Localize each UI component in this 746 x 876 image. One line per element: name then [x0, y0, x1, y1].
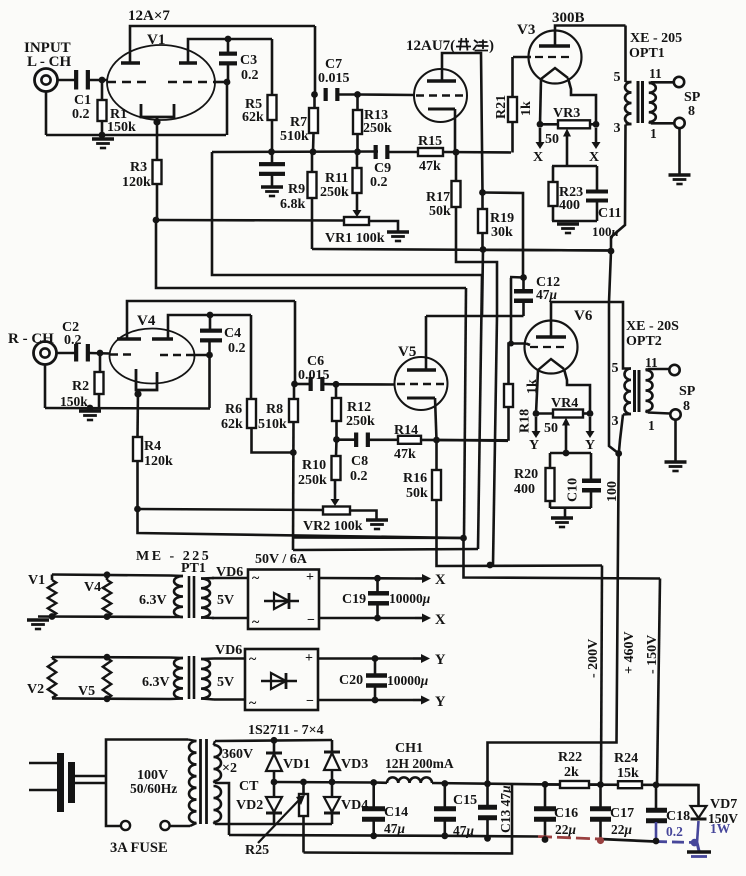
- node M: [453, 149, 460, 156]
- svg-text:120k: 120k: [144, 454, 173, 469]
- wire: [215, 823, 332, 826]
- svg-text:V3: V3: [517, 22, 535, 38]
- svg-text:0.2: 0.2: [350, 469, 368, 484]
- resistor R6: [221, 315, 293, 453]
- svg-text:CT: CT: [239, 779, 259, 794]
- svg-text:10000μ: 10000μ: [389, 591, 431, 606]
- node A: [99, 77, 106, 84]
- svg-text:X: X: [589, 150, 599, 165]
- transformer OPT2 core: [635, 370, 640, 412]
- node N: [480, 246, 487, 253]
- resistor R7: [280, 95, 318, 153]
- pin 3: [612, 414, 619, 429]
- node S2: [271, 737, 278, 744]
- svg-text:C16: C16: [554, 806, 578, 821]
- capacitor C14: [362, 783, 408, 837]
- label C7: [318, 57, 350, 86]
- wire: [57, 352, 77, 355]
- label 50V/6A: [255, 552, 308, 567]
- wire: [350, 511, 377, 520]
- svg-text:Y: Y: [435, 694, 446, 710]
- label 6.3V-2: [142, 675, 170, 690]
- svg-text:R10: R10: [302, 458, 326, 473]
- node P2: [104, 695, 111, 702]
- wire: [568, 78, 596, 124]
- transformer T2 secondary winding: [214, 741, 222, 824]
- wire: [649, 122, 674, 123]
- tube V1 grid dashes: [107, 81, 216, 83]
- label +460V: [622, 631, 637, 674]
- label -150V: [645, 635, 660, 674]
- wire: [52, 575, 170, 576]
- svg-text:C6: C6: [307, 354, 324, 369]
- svg-text:C19: C19: [342, 592, 366, 607]
- svg-text:47k: 47k: [419, 159, 441, 174]
- svg-text:0.2: 0.2: [370, 175, 388, 190]
- wire: [44, 365, 47, 409]
- svg-text:Y: Y: [585, 438, 595, 453]
- wire: [551, 302, 631, 369]
- node X1: [134, 390, 141, 397]
- transformer OPT2 primary: [623, 369, 631, 415]
- wire: [212, 150, 378, 153]
- wire gnd bus: [229, 835, 538, 837]
- arrow X ps bot: [415, 612, 446, 628]
- svg-text:12AU7(: 12AU7(: [406, 38, 455, 54]
- rectifier VD6-1 box: [248, 570, 319, 631]
- wire: [52, 657, 245, 659]
- arrow Y ps top: [413, 652, 446, 668]
- label V1: [28, 573, 45, 588]
- node U2: [441, 780, 659, 788]
- tube V5 plate: [407, 368, 436, 371]
- wire: [212, 577, 248, 580]
- svg-text:C3: C3: [240, 53, 257, 68]
- arrow Y left: [529, 417, 541, 453]
- svg-text:0.2: 0.2: [241, 68, 259, 83]
- resistor R12: [332, 384, 375, 439]
- svg-text:R16: R16: [403, 471, 427, 486]
- resistor R5: [242, 39, 277, 152]
- diode VD7: [656, 785, 738, 843]
- resistor R15: [418, 134, 443, 174]
- wire: [52, 657, 107, 658]
- svg-text:R11: R11: [325, 171, 348, 186]
- svg-text:SP: SP: [684, 90, 701, 105]
- capacitor C19: [368, 578, 389, 618]
- tube V4 envelope: [110, 313, 195, 384]
- wire: [674, 420, 677, 461]
- wire: [456, 207, 497, 316]
- tube V2 plate: [427, 79, 456, 82]
- label C20: [339, 673, 429, 688]
- svg-text:120k: 120k: [122, 175, 151, 190]
- svg-text:R17: R17: [426, 190, 450, 205]
- node Q2: [372, 655, 379, 662]
- resistor R2: [60, 356, 104, 409]
- label C19: [342, 591, 431, 607]
- svg-text:- 200V: - 200V: [586, 639, 601, 678]
- heater V2: [48, 658, 56, 698]
- ground: [551, 508, 573, 527]
- label 6.3V: [139, 593, 167, 608]
- tube V3 filament: [541, 68, 568, 79]
- arrow X ps top: [415, 572, 446, 588]
- wire: [52, 575, 107, 581]
- resistor R25: [299, 782, 308, 853]
- node D2: [433, 437, 440, 444]
- wire: [75, 776, 106, 783]
- svg-text:VD1: VD1: [283, 757, 310, 772]
- wire: [89, 352, 110, 355]
- svg-text:C17: C17: [610, 806, 634, 821]
- ground VR2: [366, 520, 388, 529]
- wire: [212, 617, 248, 620]
- label CH1: [385, 741, 454, 772]
- wire: [52, 698, 245, 699]
- node E: [225, 36, 232, 43]
- svg-text:510k: 510k: [258, 417, 287, 432]
- wire rail -150V upper: [464, 288, 466, 538]
- wire: [130, 26, 315, 63]
- capacitor C20: [366, 659, 387, 701]
- transformer OPT2 label: [626, 319, 679, 349]
- label SP 8: [679, 384, 696, 414]
- arrow Y right: [585, 417, 595, 453]
- arrow Y ps bot: [413, 694, 446, 710]
- wire: [649, 81, 674, 84]
- wire: [89, 79, 107, 82]
- svg-text:6.8k: 6.8k: [280, 197, 306, 212]
- svg-text:VR1 100k: VR1 100k: [325, 231, 385, 246]
- node C: [214, 79, 230, 86]
- wire: [156, 220, 466, 288]
- wire rail R17 route: [493, 316, 497, 565]
- wire: [552, 165, 597, 168]
- svg-text:~: ~: [249, 652, 257, 667]
- svg-text:R6: R6: [225, 402, 242, 417]
- capacitor C2: [62, 320, 90, 362]
- wire rail mid: [478, 275, 482, 549]
- wire: [215, 740, 332, 741]
- wire: [136, 390, 139, 437]
- svg-text:10000μ: 10000μ: [387, 673, 429, 688]
- wire grid V3: [513, 56, 531, 59]
- svg-text:XE - 20S: XE - 20S: [626, 319, 679, 334]
- label VD6-2: [215, 643, 242, 658]
- choke CH1: [387, 777, 432, 783]
- rectifier VD6-2 box: [245, 649, 318, 711]
- resistor R9: [280, 152, 317, 249]
- capacitor C5: [259, 152, 285, 186]
- wire: [646, 411, 671, 414]
- tube V4 right plate: [152, 315, 251, 339]
- tube V6 envelope: [525, 308, 593, 374]
- label 12AU7: [406, 38, 494, 54]
- svg-text:47μ: 47μ: [536, 287, 558, 302]
- svg-text:X: X: [435, 612, 446, 628]
- tube V1 right plate: [179, 39, 272, 63]
- resistor R21: [494, 57, 534, 153]
- tube V2 12AU7 envelope: [414, 69, 467, 122]
- tube V1 left plate: [121, 61, 140, 65]
- node M2: [374, 575, 381, 582]
- node S: [487, 562, 494, 569]
- svg-text:): ): [489, 38, 494, 54]
- rectifier VD6-2 diode: [261, 673, 297, 689]
- capacitor C11: [586, 166, 621, 239]
- wire: [212, 152, 482, 275]
- svg-text:400: 400: [514, 482, 535, 497]
- tube V5 envelope: [395, 344, 448, 410]
- svg-text:R24: R24: [614, 751, 638, 766]
- node P: [537, 121, 544, 128]
- capacitor C12: [510, 274, 560, 316]
- label ME-225: [136, 549, 211, 564]
- svg-text:C11: C11: [598, 206, 621, 221]
- svg-text:0.2: 0.2: [228, 341, 246, 356]
- svg-text:62k: 62k: [221, 417, 243, 432]
- svg-text:1W: 1W: [710, 821, 731, 836]
- wire: [386, 151, 418, 154]
- ground VR1: [387, 232, 409, 241]
- heater V4: [103, 580, 111, 617]
- resistor R17: [426, 152, 461, 219]
- resistor R24: [614, 751, 642, 788]
- svg-text:×2: ×2: [222, 761, 237, 776]
- label SP 8: [684, 90, 701, 119]
- wire B+ bus: [374, 783, 698, 786]
- label VD6: [216, 565, 243, 580]
- svg-text:250k: 250k: [320, 185, 349, 200]
- wire bus y537: [293, 536, 464, 539]
- svg-text:50: 50: [545, 132, 559, 147]
- svg-text:Y: Y: [529, 438, 539, 453]
- svg-text:3: 3: [612, 414, 619, 429]
- wire: [550, 452, 591, 455]
- svg-text:47μ: 47μ: [453, 823, 475, 838]
- resistor R18: [504, 344, 540, 441]
- svg-text:−: −: [306, 694, 314, 709]
- ground: [669, 175, 691, 184]
- capacitor C6: [309, 377, 325, 391]
- svg-text:0.2: 0.2: [666, 824, 683, 839]
- svg-text:XE - 205: XE - 205: [630, 31, 682, 46]
- svg-text:360V: 360V: [222, 747, 253, 762]
- wire: [536, 370, 538, 414]
- terminal SP2-: [670, 409, 680, 419]
- wire: [226, 82, 229, 135]
- svg-text:50k: 50k: [429, 204, 451, 219]
- wire: [156, 117, 159, 160]
- tube V1 envelope: [107, 32, 215, 120]
- node INPUT L-CH label: [24, 40, 72, 70]
- svg-text:C1: C1: [74, 93, 91, 108]
- ground: [27, 620, 49, 629]
- svg-text:C15: C15: [453, 793, 477, 808]
- tube V1 cathode: [141, 104, 174, 117]
- resistor R23: [549, 166, 584, 221]
- label 1S2711: [248, 723, 324, 738]
- wire R11 arrow: [353, 193, 362, 217]
- wire grid V6: [526, 344, 530, 346]
- capacitor C7: [324, 88, 340, 101]
- resistor R22: [545, 750, 601, 788]
- resistor R20: [514, 453, 555, 508]
- wire: [336, 383, 395, 386]
- wire gnd bus right: [538, 837, 697, 843]
- label 3A FUSE: [110, 840, 168, 856]
- svg-text:15k: 15k: [617, 766, 639, 781]
- svg-text:V6: V6: [574, 308, 593, 324]
- resistor R16: [403, 440, 602, 566]
- svg-text:8: 8: [683, 399, 690, 414]
- node T: [97, 350, 104, 357]
- svg-text:C18: C18: [666, 809, 690, 824]
- potentiometer VR1: [325, 217, 385, 246]
- label V4: [84, 580, 101, 595]
- tube V4 left plate: [117, 301, 295, 339]
- pin 11: [649, 66, 662, 81]
- svg-text:R4: R4: [144, 439, 161, 454]
- svg-text:−: −: [307, 613, 315, 628]
- svg-text:30k: 30k: [491, 225, 513, 240]
- tube V3 envelope: [517, 22, 582, 84]
- capacitor C17: [590, 785, 634, 841]
- node Z1: [291, 381, 298, 388]
- svg-text:5: 5: [614, 70, 621, 85]
- node B2: [290, 449, 297, 456]
- svg-text:47k: 47k: [394, 447, 416, 462]
- node R: [608, 248, 615, 255]
- svg-text:12A×7: 12A×7: [128, 8, 170, 24]
- svg-text:250k: 250k: [363, 121, 392, 136]
- svg-text:C4: C4: [224, 326, 241, 341]
- ground: [261, 187, 283, 196]
- svg-text:R7: R7: [290, 115, 307, 130]
- resistor R4: [133, 437, 173, 509]
- wire CT: [215, 783, 229, 835]
- svg-text:X: X: [533, 150, 543, 165]
- node B: [99, 132, 106, 139]
- node V: [207, 312, 214, 319]
- wire: [552, 220, 597, 223]
- label V5h: [78, 684, 95, 699]
- svg-text:C8: C8: [351, 454, 368, 469]
- node J2d: [615, 450, 622, 457]
- svg-text:V5: V5: [398, 344, 416, 360]
- diode VD3: [324, 740, 368, 782]
- svg-text:2k: 2k: [564, 765, 579, 780]
- svg-text:C20: C20: [339, 673, 363, 688]
- ground: [92, 139, 114, 148]
- svg-text:250k: 250k: [298, 473, 327, 488]
- transformer OPT1 core: [638, 81, 643, 123]
- svg-text:R18: R18: [518, 409, 533, 433]
- wire bus rect out: [274, 781, 374, 784]
- wire: [366, 438, 398, 441]
- tube V6 filament: [538, 359, 564, 370]
- wire plate to node O: [442, 53, 483, 193]
- resistor R14: [394, 423, 421, 462]
- svg-text:C10: C10: [566, 478, 581, 502]
- svg-text:OPT1: OPT1: [629, 46, 665, 61]
- pin 1: [650, 126, 657, 141]
- ground: [79, 411, 101, 420]
- wire pin3 OPT2: [619, 415, 623, 454]
- label 100V: [130, 768, 177, 796]
- svg-text:6.3V: 6.3V: [142, 675, 170, 690]
- wire: [337, 438, 358, 441]
- svg-text:6.3V: 6.3V: [139, 593, 167, 608]
- resistor R13: [353, 95, 392, 153]
- transformer PT1 winding 6.3V-2: [170, 658, 183, 700]
- svg-text:V1: V1: [147, 32, 165, 48]
- wire: [45, 407, 210, 410]
- wire -200 rail: [601, 566, 602, 785]
- transformer OPT1 primary: [625, 26, 632, 125]
- wire: [646, 369, 670, 370]
- wire: [564, 369, 590, 414]
- wire: [550, 506, 591, 509]
- node R-CH label: [8, 331, 54, 347]
- svg-text:62k: 62k: [242, 110, 264, 125]
- capacitor C3: [219, 39, 259, 83]
- arrow X left: [533, 128, 545, 165]
- wire: [318, 657, 413, 660]
- svg-text:0.2: 0.2: [64, 333, 82, 348]
- diode VD1: [266, 740, 310, 782]
- node Q: [593, 121, 600, 128]
- svg-text:0.015: 0.015: [318, 71, 350, 86]
- heater V1: [48, 580, 56, 616]
- svg-text:V2: V2: [27, 682, 44, 697]
- resistor R11: [320, 152, 362, 200]
- label -200V: [586, 639, 601, 678]
- svg-text:+ 460V: + 460V: [622, 631, 637, 674]
- wire y250 right segment: [483, 249, 611, 252]
- svg-text:50k: 50k: [406, 486, 428, 501]
- svg-text:VD6: VD6: [215, 643, 242, 658]
- rectifier VD6-1 diode: [264, 593, 299, 609]
- wire: [294, 301, 297, 384]
- wire: [369, 221, 398, 231]
- potentiometer VR3: [540, 106, 596, 128]
- svg-text:+: +: [306, 570, 314, 585]
- wire y852: [304, 785, 513, 854]
- wire: [58, 79, 77, 82]
- svg-text:R25: R25: [245, 843, 269, 858]
- label 100: [605, 481, 620, 502]
- transformer T2 core: [201, 739, 207, 824]
- svg-text:100μ: 100μ: [592, 224, 619, 239]
- svg-text:47μ: 47μ: [384, 821, 406, 836]
- ground: [557, 224, 579, 233]
- svg-text:~: ~: [249, 696, 257, 711]
- arrow X right: [589, 128, 601, 165]
- svg-text:C9: C9: [374, 161, 391, 176]
- ground: [687, 843, 711, 857]
- svg-text:5V: 5V: [217, 593, 234, 608]
- svg-text:1: 1: [648, 418, 655, 433]
- node O: [479, 189, 486, 196]
- wire: [208, 355, 211, 408]
- svg-text:CH1: CH1: [395, 741, 423, 756]
- terminal SP2+: [669, 365, 679, 375]
- transformer PT1 winding 5V-1: [201, 578, 234, 618]
- wire: [483, 193, 524, 278]
- wire R25 arrow: [245, 795, 305, 858]
